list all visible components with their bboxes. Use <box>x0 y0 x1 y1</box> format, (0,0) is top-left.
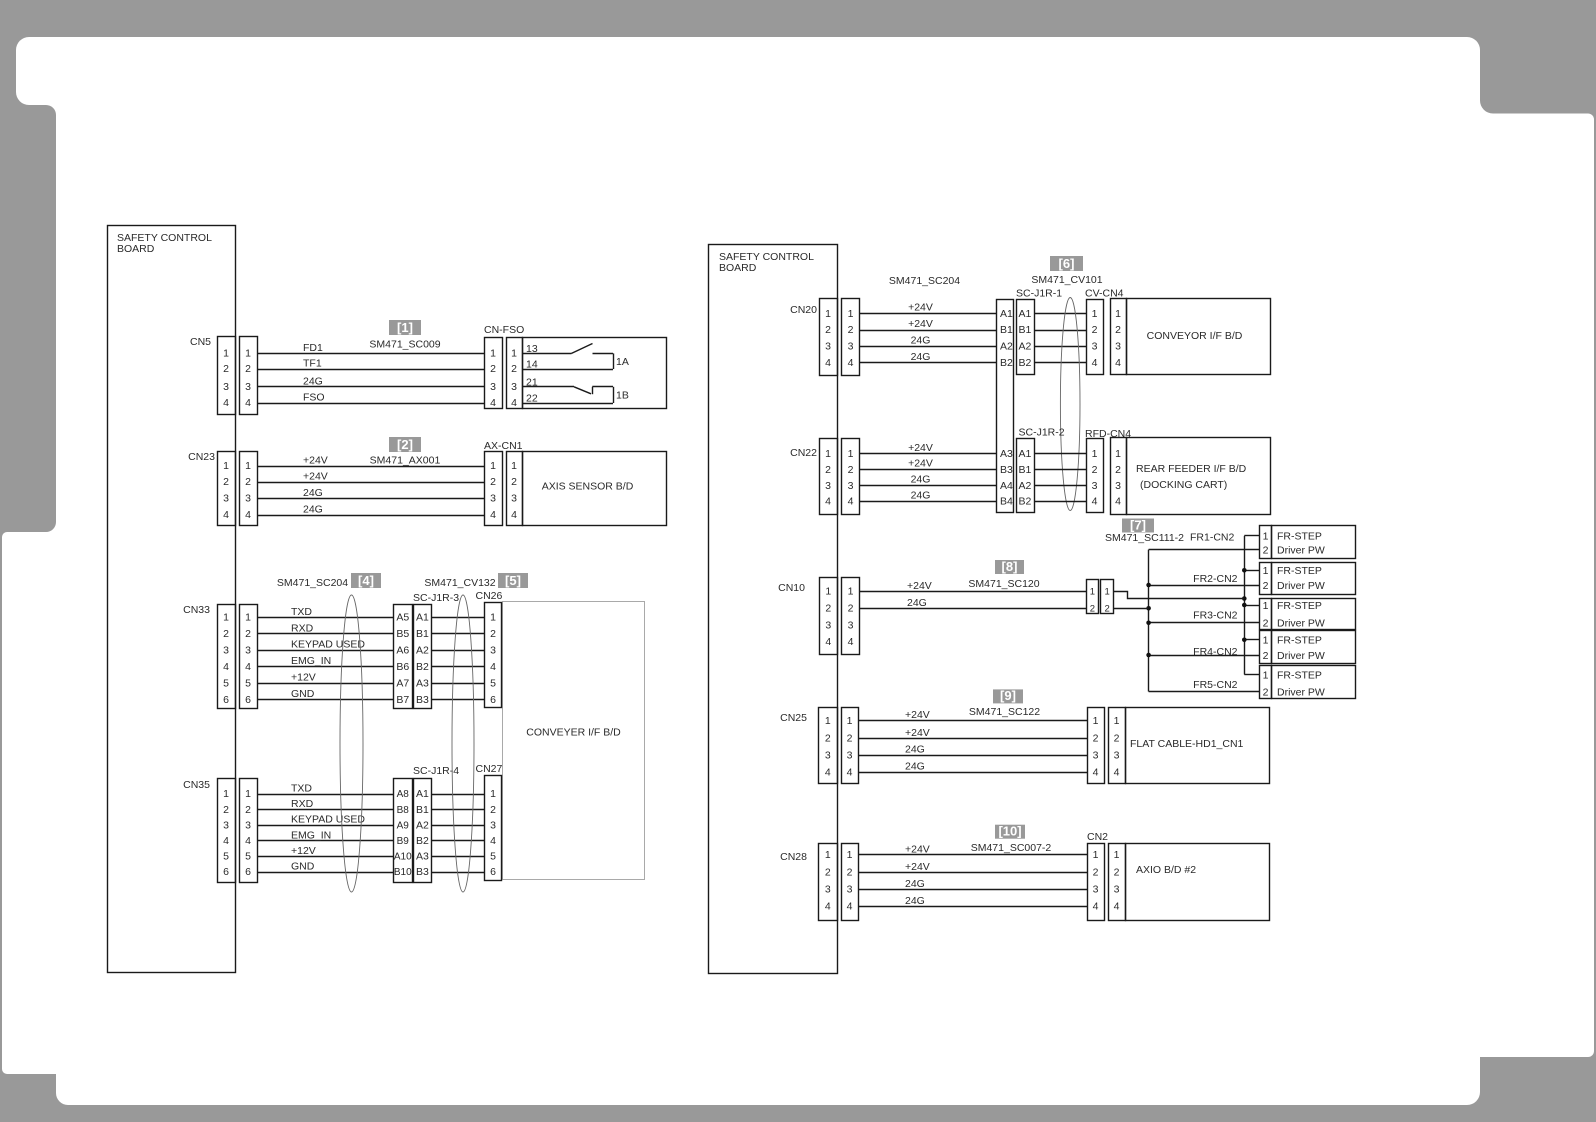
svg-text:4: 4 <box>511 397 517 409</box>
svg-text:+24V: +24V <box>908 458 933 470</box>
svg-text:3: 3 <box>825 341 831 353</box>
svg-text:4: 4 <box>245 509 251 521</box>
svg-text:4: 4 <box>825 357 831 369</box>
svg-text:B2: B2 <box>1000 357 1013 369</box>
svg-text:+24V: +24V <box>908 302 933 314</box>
svg-text:3: 3 <box>825 884 831 896</box>
svg-text:+24V: +24V <box>905 861 930 873</box>
svg-text:EMG_IN: EMG_IN <box>291 655 331 667</box>
svg-text:1: 1 <box>825 448 831 460</box>
svg-text:B9: B9 <box>397 836 410 847</box>
svg-text:5: 5 <box>245 677 251 689</box>
svg-text:3: 3 <box>1092 341 1098 353</box>
svg-text:3: 3 <box>1114 884 1120 896</box>
svg-text:+12V: +12V <box>291 672 316 684</box>
svg-text:2: 2 <box>1114 867 1120 879</box>
svg-text:SC-J1R-3: SC-J1R-3 <box>413 592 459 604</box>
svg-text:5: 5 <box>490 677 496 689</box>
svg-text:B10: B10 <box>394 867 412 878</box>
svg-text:SM471_CV101: SM471_CV101 <box>1031 274 1102 286</box>
svg-text:CN20: CN20 <box>790 304 817 316</box>
svg-text:B1: B1 <box>1000 324 1013 336</box>
svg-text:FR-STEP: FR-STEP <box>1277 635 1322 647</box>
svg-text:[5]: [5] <box>505 573 521 588</box>
svg-text:3: 3 <box>490 819 496 831</box>
svg-text:2: 2 <box>825 324 831 336</box>
svg-text:4: 4 <box>490 509 496 521</box>
svg-text:2: 2 <box>1263 686 1269 698</box>
svg-text:+24V: +24V <box>303 471 328 483</box>
svg-text:KEYPAD USED: KEYPAD USED <box>291 814 365 826</box>
svg-text:B2: B2 <box>416 835 429 847</box>
svg-text:3: 3 <box>490 493 496 505</box>
svg-text:CN22: CN22 <box>790 447 817 459</box>
svg-text:2: 2 <box>847 867 853 879</box>
svg-text:SC-J1R-2: SC-J1R-2 <box>1019 427 1065 439</box>
svg-text:SM471_SC204: SM471_SC204 <box>277 577 348 589</box>
svg-text:3: 3 <box>223 819 229 831</box>
svg-text:B4: B4 <box>1000 496 1013 508</box>
svg-text:3: 3 <box>223 644 229 656</box>
svg-text:2: 2 <box>1093 733 1099 745</box>
svg-text:FR-STEP: FR-STEP <box>1277 669 1322 681</box>
svg-text:2: 2 <box>245 476 251 488</box>
svg-text:3: 3 <box>848 480 854 492</box>
svg-text:B2: B2 <box>416 661 429 673</box>
svg-text:2: 2 <box>1263 618 1269 630</box>
svg-text:2: 2 <box>1263 544 1269 556</box>
svg-text:2: 2 <box>490 628 496 640</box>
svg-text:A1: A1 <box>416 788 429 800</box>
svg-text:2: 2 <box>1092 324 1098 336</box>
svg-text:4: 4 <box>490 835 496 847</box>
svg-text:1: 1 <box>847 849 853 861</box>
svg-text:5: 5 <box>223 677 229 689</box>
svg-text:1: 1 <box>490 348 496 360</box>
svg-text:2: 2 <box>847 733 853 745</box>
svg-text:CONVEYOR I/F B/D: CONVEYOR I/F B/D <box>1147 330 1243 342</box>
svg-text:A7: A7 <box>396 677 409 689</box>
svg-text:24G: 24G <box>303 504 323 516</box>
svg-text:[2]: [2] <box>397 437 413 452</box>
svg-text:SM471_SC204: SM471_SC204 <box>889 275 960 287</box>
svg-text:6: 6 <box>245 694 251 706</box>
svg-text:2: 2 <box>1090 604 1095 615</box>
svg-text:2: 2 <box>1263 580 1269 592</box>
svg-text:4: 4 <box>825 636 831 648</box>
svg-text:14: 14 <box>526 359 538 371</box>
svg-text:AXIO B/D #2: AXIO B/D #2 <box>1136 864 1196 876</box>
svg-text:CN35: CN35 <box>183 779 210 791</box>
svg-text:3: 3 <box>848 341 854 353</box>
svg-text:4: 4 <box>1115 357 1121 369</box>
svg-text:3: 3 <box>223 493 229 505</box>
svg-text:1: 1 <box>1115 308 1121 320</box>
svg-text:3: 3 <box>1115 341 1121 353</box>
svg-text:2: 2 <box>1115 464 1121 476</box>
svg-text:B7: B7 <box>396 694 409 706</box>
svg-text:FR2-CN2: FR2-CN2 <box>1193 573 1237 585</box>
svg-text:24G: 24G <box>303 487 323 499</box>
svg-text:FR5-CN2: FR5-CN2 <box>1193 679 1237 691</box>
svg-text:[8]: [8] <box>1002 559 1018 574</box>
svg-text:A2: A2 <box>1019 341 1032 353</box>
svg-text:1: 1 <box>825 586 831 598</box>
svg-text:2: 2 <box>223 476 229 488</box>
svg-text:B1: B1 <box>416 628 429 640</box>
svg-text:6: 6 <box>245 866 251 878</box>
svg-text:4: 4 <box>1114 901 1120 913</box>
svg-text:3: 3 <box>1093 884 1099 896</box>
svg-text:4: 4 <box>848 357 854 369</box>
svg-text:CN25: CN25 <box>780 712 807 724</box>
svg-text:B2: B2 <box>1019 357 1032 369</box>
svg-text:2: 2 <box>245 363 251 375</box>
svg-text:4: 4 <box>847 901 853 913</box>
svg-text:+24V: +24V <box>908 318 933 330</box>
svg-text:[7]: [7] <box>1130 517 1146 532</box>
svg-text:24G: 24G <box>911 351 931 363</box>
svg-text:4: 4 <box>490 661 496 673</box>
svg-text:A10: A10 <box>394 852 412 863</box>
svg-text:2: 2 <box>825 867 831 879</box>
svg-text:A1: A1 <box>1019 308 1032 320</box>
svg-text:3: 3 <box>825 480 831 492</box>
svg-text:EMG_IN: EMG_IN <box>291 829 331 841</box>
svg-text:24G: 24G <box>905 878 925 890</box>
svg-text:4: 4 <box>825 496 831 508</box>
svg-text:+24V: +24V <box>303 455 328 467</box>
svg-text:3: 3 <box>223 381 229 393</box>
svg-text:3: 3 <box>825 619 831 631</box>
svg-text:6: 6 <box>223 694 229 706</box>
svg-text:B1: B1 <box>1019 464 1032 476</box>
svg-text:1: 1 <box>223 348 229 360</box>
svg-text:1: 1 <box>245 788 251 800</box>
svg-text:24G: 24G <box>911 490 931 502</box>
svg-text:CN10: CN10 <box>778 582 805 594</box>
svg-text:1: 1 <box>1263 669 1269 681</box>
svg-text:3: 3 <box>1092 480 1098 492</box>
svg-text:24G: 24G <box>907 597 927 609</box>
svg-text:B1: B1 <box>416 804 429 816</box>
svg-text:FR-STEP: FR-STEP <box>1277 565 1322 577</box>
svg-text:5: 5 <box>245 851 251 863</box>
svg-text:1: 1 <box>1093 849 1099 861</box>
svg-text:TF1: TF1 <box>303 358 322 370</box>
svg-text:FR-STEP: FR-STEP <box>1277 600 1322 612</box>
svg-text:2: 2 <box>245 628 251 640</box>
svg-text:2: 2 <box>1104 604 1109 615</box>
svg-text:CN28: CN28 <box>780 851 807 863</box>
svg-text:Driver PW: Driver PW <box>1277 580 1325 592</box>
svg-text:REAR FEEDER I/F B/D: REAR FEEDER I/F B/D <box>1136 463 1247 475</box>
svg-text:22: 22 <box>526 393 538 405</box>
svg-text:Driver PW: Driver PW <box>1277 618 1325 630</box>
svg-text:4: 4 <box>245 835 251 847</box>
svg-text:CN5: CN5 <box>190 336 211 348</box>
svg-text:4: 4 <box>1092 496 1098 508</box>
svg-text:CN2: CN2 <box>1087 831 1108 843</box>
svg-text:4: 4 <box>825 766 831 778</box>
svg-text:B1: B1 <box>1019 324 1032 336</box>
svg-text:2: 2 <box>825 733 831 745</box>
svg-text:B3: B3 <box>416 694 429 706</box>
svg-text:6: 6 <box>223 866 229 878</box>
svg-text:1: 1 <box>245 612 251 624</box>
svg-text:[9]: [9] <box>1000 688 1016 703</box>
svg-text:2: 2 <box>825 464 831 476</box>
svg-text:3: 3 <box>825 749 831 761</box>
svg-text:RXD: RXD <box>291 622 314 634</box>
svg-text:A5: A5 <box>396 612 409 624</box>
svg-text:SM471_SC111-2: SM471_SC111-2 <box>1105 532 1184 544</box>
svg-text:1: 1 <box>848 586 854 598</box>
svg-text:1A: 1A <box>616 356 629 368</box>
svg-text:4: 4 <box>825 901 831 913</box>
svg-text:SM471_SC120: SM471_SC120 <box>968 578 1039 590</box>
svg-text:4: 4 <box>490 397 496 409</box>
svg-text:2: 2 <box>223 804 229 816</box>
svg-text:3: 3 <box>1093 749 1099 761</box>
svg-text:2: 2 <box>511 476 517 488</box>
svg-text:2: 2 <box>848 464 854 476</box>
svg-text:1: 1 <box>825 849 831 861</box>
svg-text:1: 1 <box>1092 448 1098 460</box>
svg-text:4: 4 <box>848 496 854 508</box>
svg-text:A9: A9 <box>397 820 410 831</box>
svg-text:2: 2 <box>825 603 831 615</box>
svg-text:FD1: FD1 <box>303 342 323 354</box>
svg-text:+24V: +24V <box>905 709 930 721</box>
svg-text:24G: 24G <box>905 895 925 907</box>
svg-text:1: 1 <box>511 348 517 360</box>
svg-text:1: 1 <box>1263 635 1269 647</box>
svg-text:2: 2 <box>1092 464 1098 476</box>
svg-text:2: 2 <box>490 363 496 375</box>
svg-text:+24V: +24V <box>907 580 932 592</box>
svg-text:4: 4 <box>223 661 229 673</box>
svg-text:BOARD: BOARD <box>117 243 155 255</box>
svg-text:CN27: CN27 <box>476 763 503 775</box>
svg-text:+24V: +24V <box>908 442 933 454</box>
svg-text:2: 2 <box>490 804 496 816</box>
svg-text:CN26: CN26 <box>476 590 503 602</box>
svg-text:1: 1 <box>223 460 229 472</box>
svg-text:2: 2 <box>490 476 496 488</box>
svg-text:1: 1 <box>825 715 831 727</box>
svg-text:A2: A2 <box>416 819 429 831</box>
svg-text:3: 3 <box>847 749 853 761</box>
svg-text:B2: B2 <box>1019 496 1032 508</box>
svg-text:24G: 24G <box>905 744 925 756</box>
svg-text:24G: 24G <box>911 334 931 346</box>
svg-text:CONVEYER I/F B/D: CONVEYER I/F B/D <box>526 727 621 739</box>
svg-text:A3: A3 <box>416 677 429 689</box>
svg-text:1: 1 <box>1115 448 1121 460</box>
svg-text:1: 1 <box>245 348 251 360</box>
svg-text:CN33: CN33 <box>183 604 210 616</box>
svg-text:FLAT CABLE-HD1_CN1: FLAT CABLE-HD1_CN1 <box>1130 738 1244 750</box>
svg-text:3: 3 <box>490 644 496 656</box>
svg-text:3: 3 <box>245 644 251 656</box>
svg-text:6: 6 <box>490 866 496 878</box>
svg-text:SM471_SC122: SM471_SC122 <box>969 706 1040 718</box>
svg-text:A3: A3 <box>416 851 429 863</box>
svg-text:2: 2 <box>1093 867 1099 879</box>
svg-text:1: 1 <box>1104 587 1109 598</box>
svg-text:A2: A2 <box>416 644 429 656</box>
svg-text:CN23: CN23 <box>188 451 215 463</box>
svg-text:1: 1 <box>490 612 496 624</box>
svg-text:1: 1 <box>1263 600 1269 612</box>
svg-text:4: 4 <box>245 661 251 673</box>
svg-text:3: 3 <box>490 381 496 393</box>
svg-text:FR-STEP: FR-STEP <box>1277 531 1322 543</box>
svg-text:2: 2 <box>1115 324 1121 336</box>
svg-text:B5: B5 <box>396 628 409 640</box>
svg-text:+24V: +24V <box>905 843 930 855</box>
svg-text:B3: B3 <box>416 866 429 878</box>
svg-text:RXD: RXD <box>291 798 314 810</box>
svg-text:1: 1 <box>1263 565 1269 577</box>
svg-text:3: 3 <box>511 493 517 505</box>
svg-text:1: 1 <box>1114 849 1120 861</box>
svg-text:3: 3 <box>847 884 853 896</box>
svg-text:4: 4 <box>1092 357 1098 369</box>
svg-text:SM471_CV132: SM471_CV132 <box>424 577 495 589</box>
svg-text:TXD: TXD <box>291 783 312 795</box>
svg-text:1: 1 <box>223 612 229 624</box>
svg-text:[6]: [6] <box>1059 256 1075 271</box>
svg-text:4: 4 <box>1093 901 1099 913</box>
svg-text:1: 1 <box>511 460 517 472</box>
svg-text:2: 2 <box>223 363 229 375</box>
svg-text:B8: B8 <box>397 805 410 816</box>
svg-text:SM471_SC007-2: SM471_SC007-2 <box>971 842 1052 854</box>
svg-text:24G: 24G <box>911 474 931 486</box>
svg-text:FSO: FSO <box>303 392 325 404</box>
svg-text:3: 3 <box>245 381 251 393</box>
svg-text:4: 4 <box>1114 766 1120 778</box>
svg-text:2: 2 <box>1114 733 1120 745</box>
svg-text:TXD: TXD <box>291 606 312 618</box>
svg-text:2: 2 <box>245 804 251 816</box>
svg-text:3: 3 <box>848 619 854 631</box>
svg-text:Driver PW: Driver PW <box>1277 650 1325 662</box>
svg-text:1: 1 <box>848 448 854 460</box>
svg-text:6: 6 <box>490 694 496 706</box>
svg-text:GND: GND <box>291 688 315 700</box>
svg-text:4: 4 <box>245 397 251 409</box>
svg-text:3: 3 <box>511 381 517 393</box>
svg-text:GND: GND <box>291 861 315 873</box>
svg-text:B6: B6 <box>396 661 409 673</box>
svg-text:[10]: [10] <box>998 824 1021 839</box>
svg-text:A2: A2 <box>1019 480 1032 492</box>
svg-text:AXIS SENSOR B/D: AXIS SENSOR B/D <box>542 481 634 493</box>
svg-text:5: 5 <box>223 851 229 863</box>
svg-text:CV-CN4: CV-CN4 <box>1085 288 1124 300</box>
svg-text:2: 2 <box>223 628 229 640</box>
svg-text:4: 4 <box>223 509 229 521</box>
svg-text:2: 2 <box>1263 650 1269 662</box>
svg-text:1: 1 <box>223 788 229 800</box>
svg-text:+24V: +24V <box>905 727 930 739</box>
svg-text:FR1-CN2: FR1-CN2 <box>1190 532 1234 544</box>
svg-text:A4: A4 <box>1000 480 1013 492</box>
svg-text:1: 1 <box>1114 715 1120 727</box>
svg-text:4: 4 <box>847 766 853 778</box>
svg-text:1: 1 <box>848 308 854 320</box>
svg-text:4: 4 <box>1115 496 1121 508</box>
svg-text:A1: A1 <box>1000 308 1013 320</box>
svg-text:1: 1 <box>490 460 496 472</box>
svg-text:4: 4 <box>848 636 854 648</box>
svg-text:2: 2 <box>848 324 854 336</box>
svg-text:1: 1 <box>1263 531 1269 543</box>
svg-text:(DOCKING CART): (DOCKING CART) <box>1140 479 1227 491</box>
svg-text:A3: A3 <box>1000 448 1013 460</box>
svg-text:24G: 24G <box>303 375 323 387</box>
svg-text:1B: 1B <box>616 390 629 402</box>
svg-text:3: 3 <box>245 819 251 831</box>
svg-text:1: 1 <box>1090 587 1095 598</box>
svg-text:A2: A2 <box>1000 341 1013 353</box>
svg-text:1: 1 <box>825 308 831 320</box>
svg-text:1: 1 <box>847 715 853 727</box>
svg-text:1: 1 <box>1092 308 1098 320</box>
svg-text:SC-J1R-1: SC-J1R-1 <box>1016 288 1062 300</box>
svg-text:Driver PW: Driver PW <box>1277 544 1325 556</box>
svg-text:[4]: [4] <box>358 573 374 588</box>
svg-text:5: 5 <box>490 851 496 863</box>
svg-text:SM471_SC009: SM471_SC009 <box>369 339 440 351</box>
svg-text:FR3-CN2: FR3-CN2 <box>1193 610 1237 622</box>
svg-text:A8: A8 <box>397 789 410 800</box>
svg-text:3: 3 <box>245 493 251 505</box>
svg-text:1: 1 <box>490 788 496 800</box>
svg-text:KEYPAD USED: KEYPAD USED <box>291 639 365 651</box>
svg-text:1: 1 <box>245 460 251 472</box>
svg-text:A1: A1 <box>416 612 429 624</box>
svg-text:24G: 24G <box>905 761 925 773</box>
svg-text:2: 2 <box>511 363 517 375</box>
svg-text:4: 4 <box>1093 766 1099 778</box>
svg-text:4: 4 <box>511 509 517 521</box>
svg-text:CN-FSO: CN-FSO <box>484 324 524 336</box>
svg-text:AX-CN1: AX-CN1 <box>484 440 523 452</box>
svg-text:B3: B3 <box>1000 464 1013 476</box>
svg-text:1: 1 <box>1093 715 1099 727</box>
svg-text:[1]: [1] <box>397 320 413 335</box>
svg-text:2: 2 <box>848 603 854 615</box>
svg-text:A6: A6 <box>396 644 409 656</box>
svg-text:4: 4 <box>223 835 229 847</box>
svg-text:4: 4 <box>223 397 229 409</box>
svg-text:+12V: +12V <box>291 845 316 857</box>
svg-text:3: 3 <box>1114 749 1120 761</box>
svg-text:BOARD: BOARD <box>719 262 757 274</box>
svg-text:A1: A1 <box>1019 448 1032 460</box>
svg-text:Driver PW: Driver PW <box>1277 686 1325 698</box>
svg-text:3: 3 <box>1115 480 1121 492</box>
svg-text:SM471_AX001: SM471_AX001 <box>370 455 441 467</box>
